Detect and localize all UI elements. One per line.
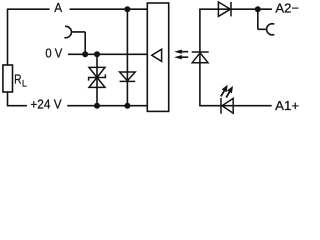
svg-text:L: L [22, 78, 27, 88]
svg-text:A: A [54, 0, 62, 15]
svg-text:R: R [14, 72, 21, 87]
svg-text:+24 V: +24 V [30, 97, 61, 112]
svg-text:A1+: A1+ [275, 98, 299, 113]
svg-text:0 V: 0 V [45, 46, 62, 61]
svg-text:A2−: A2− [275, 1, 299, 16]
